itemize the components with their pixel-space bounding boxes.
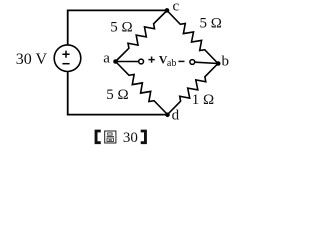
wire from right probe terminal to node b (195, 62, 218, 63)
svg-text:ab: ab (167, 58, 176, 69)
right probe terminal (open circle) (190, 60, 195, 65)
label + of Vab (148, 57, 154, 63)
wire left-bottom from source to bottom rail (68, 72, 168, 115)
label minus of Vab (178, 60, 184, 62)
svg-text:d: d (172, 108, 180, 124)
svg-text:a: a (103, 51, 110, 67)
svg-text:1 Ω: 1 Ω (192, 92, 214, 108)
wire from node a to left probe terminal (116, 61, 139, 63)
svg-text:5 Ω: 5 Ω (106, 87, 128, 103)
voltage source V1 30V (54, 45, 81, 72)
svg-text:5 Ω: 5 Ω (200, 16, 222, 32)
node c (165, 8, 170, 13)
svg-text:30 V: 30 V (16, 51, 48, 68)
resistor R3 5ohm (a to d) (116, 62, 168, 115)
resistor R2 5ohm (c to b) (167, 11, 218, 64)
svg-text:5 Ω: 5 Ω (110, 19, 132, 35)
caption CJK glyph 'tu' (figure 圖) (105, 131, 116, 143)
svg-text:b: b (222, 54, 230, 70)
caption left lenticular bracket (95, 130, 101, 145)
node b (216, 61, 221, 66)
resistor R1 5ohm (a to c) (116, 11, 168, 62)
resistor R4 1ohm (d to b) (168, 64, 219, 115)
caption right lenticular bracket (141, 130, 147, 145)
left probe terminal (open circle) (139, 59, 144, 64)
svg-text:c: c (173, 0, 180, 14)
wire top rail from source to node c (68, 10, 167, 45)
node a (113, 59, 118, 64)
node d (165, 113, 170, 118)
svg-text:30: 30 (123, 130, 138, 146)
